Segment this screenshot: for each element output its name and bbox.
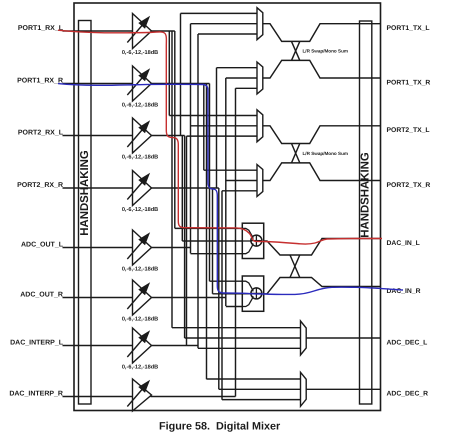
wire PORT2_RX_R bus tap to ADC_DEC mux AM2 input 2 (219, 388, 301, 390)
wire attenuator A1 output to bus (151, 30, 175, 32)
bus wire PORT2_RX_L to summer S1 (vertical) (181, 136, 183, 242)
wire summer S1 output rail to DAC swap and DAC_IN_L row (264, 239, 381, 256)
wire DAC_INTERP_R from label through HANDSHAKING to attenuator (63, 396, 133, 398)
mux AM1 (ADC_DEC_L source select) (301, 321, 307, 355)
bus wire ADC_OUT_L bus to mux M1, mux M3 and summer S1 (vertical) (190, 24, 192, 254)
svg-text:PORT2_TX_L: PORT2_TX_L (387, 127, 430, 134)
mux M4 (PORT2_TX_R source select) (257, 165, 263, 197)
wire PORT1_RX_L bus tap to PORT mux M3 input 3 (187, 135, 258, 137)
wire ADC_OUT_L bus tap to PORT mux M3 input 2 (191, 125, 258, 127)
wire PORT2_RX_L bus tap to ADC_DEC mux AM1 input 2 (185, 337, 301, 339)
L/R swap crossover X (PORT2_TX) (292, 144, 300, 163)
wire PORT1_RX_R from label through HANDSHAKING to attenuator (63, 83, 133, 85)
mux M2 (PORT1_TX_R source select) (257, 62, 263, 94)
svg-text:HANDSHAKING: HANDSHAKING (360, 152, 372, 238)
wire mux AM1 output to ADC_DEC_L row (306, 337, 380, 339)
highlighted blue example path PORT1_RX_R to DAC_IN_R (58, 84, 403, 295)
wire DAC_INTERP_R bus tap to PORT mux M2 input 3 (236, 87, 258, 89)
bus wire PORT1_RX_R to ADC_DEC mux AM2 (vertical) (206, 84, 208, 380)
wire attenuator A8 output to bus (151, 396, 236, 398)
svg-text:0,-6,-12,-18dB: 0,-6,-12,-18dB (122, 316, 158, 323)
attenuator A4 (variable, triangle with arrow) (127, 171, 151, 206)
wire PORT2_RX_R bus tap to PORT mux M2 input 1 (217, 67, 258, 69)
wire DAC_INTERP_L bus tap to ADC_DEC mux AM1 input 3 (198, 347, 301, 349)
wire ADC_OUT_R from label through HANDSHAKING to attenuator (63, 297, 133, 299)
wire ADC_OUT_R bus tap to PORT mux M4 input 2 (226, 180, 257, 182)
svg-text:PORT2_RX_L: PORT2_RX_L (18, 130, 64, 137)
svg-text:PORT1_RX_L: PORT1_RX_L (18, 25, 64, 32)
attenuator A2 (variable, triangle with arrow) (127, 66, 151, 101)
wire PORT1_RX_R bus tap to summer S2 DAC_IN_R input 1 (210, 280, 243, 282)
bus wire PORT2_RX_R down to ADC_DEC mux AM2 (vertical) (218, 188, 220, 389)
L/R swap crossover X (DAC_IN) (290, 255, 300, 278)
mux AM2 (ADC_DEC_R source select) (301, 372, 307, 406)
svg-text:PORT2_RX_R: PORT2_RX_R (17, 182, 63, 189)
bus wire PORT2_RX_L up to mux M1 (vertical) (180, 13, 182, 135)
wire mux AM2 output to ADC_DEC_R row (306, 388, 380, 390)
wire mux output rail to swap and PORT2_TX R output row (263, 163, 381, 181)
svg-text:PORT1_TX_R: PORT1_TX_R (387, 79, 431, 86)
svg-text:PORT2_TX_R: PORT2_TX_R (387, 182, 431, 189)
svg-text:0,-6,-12,-18dB: 0,-6,-12,-18dB (122, 364, 158, 371)
wire PORT2_RX_R from label through HANDSHAKING to attenuator (63, 187, 133, 189)
svg-text:ADC_OUT_R: ADC_OUT_R (20, 292, 63, 299)
bus wire DAC_INTERP_L up to mux M3 (vertical) (186, 136, 188, 345)
wire DAC_INTERP_L bus tap to PORT mux M3 input 1 (169, 115, 257, 117)
wire DAC_INTERP_L from label through HANDSHAKING to attenuator (63, 345, 133, 347)
svg-text:DAC_INTERP_R: DAC_INTERP_R (9, 391, 63, 398)
attenuator A8 (variable, triangle with arrow) (127, 379, 151, 411)
outer mixer block boundary (74, 3, 381, 411)
svg-text:ADC_OUT_L: ADC_OUT_L (21, 242, 64, 249)
wire PORT1_RX_R bus tap to ADC_DEC mux AM2 input 1 (207, 378, 301, 380)
wire PORT1_RX_R bus tap to PORT mux M4 input 3 (222, 190, 257, 192)
svg-text:HANDSHAKING: HANDSHAKING (79, 150, 91, 236)
wire PORT1_RX_L bus tap to summer S1 DAC_IN_L input 1 (175, 227, 243, 229)
left HANDSHAKING block (79, 21, 92, 405)
wire attenuator A3 output to bus (151, 135, 185, 137)
svg-text:0,-6,-12,-18dB: 0,-6,-12,-18dB (122, 49, 158, 56)
bus wire PORT2_RX_R to summer S2 (vertical) (212, 188, 214, 294)
wire ADC_OUT_L bus tap to PORT mux M1 input 2 (191, 23, 258, 25)
bus wire DAC_INTERP_L up to mux M1 / stub to AM1 (vertical) (197, 34, 199, 348)
bus wire PORT1_RX_L up-tap to mux M3 (vertical) (168, 31, 170, 116)
right HANDSHAKING block (360, 21, 372, 404)
svg-text:L/R Swap/Mono Sum: L/R Swap/Mono Sum (303, 49, 349, 54)
wire ADC_OUT_L bus tap to summer S1 DAC_IN_L input 3 (191, 253, 243, 255)
wire PORT1_RX_L from label through HANDSHAKING to attenuator (63, 30, 133, 32)
summing mixer S1 DAC_IN_L box (242, 223, 263, 258)
wire mux output rail to swap and PORT2_TX L output row (263, 126, 381, 144)
mux M1 (PORT1_TX_L source select) (257, 8, 263, 40)
attenuator A7 (variable, triangle with arrow) (127, 328, 151, 363)
wire PORT2_RX_L bus tap to PORT mux M1 input 1 (181, 12, 258, 14)
wire attenuator A2 output to bus (151, 83, 210, 85)
L/R swap crossover X (PORT1_TX) (292, 41, 300, 60)
svg-text:0,-6,-12,-18dB: 0,-6,-12,-18dB (122, 206, 158, 213)
wire mux output rail to swap and PORT1_TX L output row (263, 24, 381, 42)
bus wire PORT2_RX_R up to mux M2 (vertical) (216, 68, 218, 188)
bus wire ADC_OUT_R bus to mux M2, mux M4 and summer S2 (vertical) (225, 78, 227, 306)
svg-text:0,-6,-12,-18dB: 0,-6,-12,-18dB (122, 154, 158, 161)
wire attenuator A4 output to bus (151, 187, 219, 189)
svg-text:DAC_IN_L: DAC_IN_L (387, 240, 420, 247)
attenuator A1 (variable, triangle with arrow) (127, 14, 151, 49)
wire attenuator A5 output to bus (151, 247, 191, 249)
svg-text:ADC_DEC_R: ADC_DEC_R (387, 391, 429, 398)
bus wire PORT1_RX_R up-tap to mux M4 (vertical) (203, 84, 205, 171)
svg-text:0,-6,-12,-18dB: 0,-6,-12,-18dB (122, 266, 158, 273)
bus wire PORT1_RX_R to summer S2 (vertical) (209, 84, 211, 282)
svg-text:ADC_DEC_L: ADC_DEC_L (387, 339, 428, 346)
wire ADC_OUT_R bus tap to summer S2 DAC_IN_R input 3 (226, 306, 243, 308)
svg-text:L/R Swap/Mono Sum: L/R Swap/Mono Sum (303, 151, 349, 156)
bus wire PORT1_RX_L to summer S1 (vertical) (174, 31, 176, 228)
svg-text:Figure 58. Digital Mixer: Figure 58. Digital Mixer (159, 421, 281, 433)
wire attenuator A7 output to bus (151, 345, 199, 347)
summing mixer S2 DAC_IN_R box (242, 276, 263, 311)
mux M3 (PORT2_TX_L source select) (257, 110, 263, 142)
svg-text:0,-6,-12,-18dB: 0,-6,-12,-18dB (122, 102, 158, 109)
svg-text:DAC_INTERP_L: DAC_INTERP_L (10, 340, 64, 347)
svg-text:PORT1_TX_L: PORT1_TX_L (387, 25, 430, 32)
wire DAC_INTERP_R bus tap to ADC_DEC mux AM2 input 3 (222, 399, 301, 401)
wire summer S2 output rail to DAC swap and DAC_IN_R row (264, 278, 381, 294)
wire attenuator A6 output to bus (151, 297, 226, 299)
attenuator A6 (variable, triangle with arrow) (127, 280, 151, 315)
wire DAC_INTERP_L bus tap to PORT mux M1 input 3 (198, 33, 257, 35)
attenuator A5 (variable, triangle with arrow) (127, 230, 151, 265)
wire PORT1_RX_L bus tap to ADC_DEC mux AM1 input 1 (172, 327, 301, 329)
bus wire DAC_INTERP_R up to mux M2 (vertical) (235, 88, 237, 396)
highlighted red example path PORT1_RX_L to DAC_IN_L (58, 30, 382, 244)
wire PORT2_RX_L bus tap to summer S1 DAC_IN_L input 2 (182, 240, 242, 242)
bus wire PORT2_RX_L down to ADC_DEC mux AM1 (vertical) (184, 136, 186, 339)
wire ADC_OUT_L from label through HANDSHAKING to attenuator (63, 247, 133, 249)
svg-text:PORT1_RX_R: PORT1_RX_R (17, 78, 63, 85)
wire PORT2_RX_L from label through HANDSHAKING to attenuator (63, 135, 133, 137)
bus wire PORT1_RX_L to ADC_DEC mux AM1 (vertical) (171, 31, 173, 328)
wire DAC_INTERP_R bus tap to PORT mux M4 input 1 (204, 169, 257, 171)
attenuator A3 (variable, triangle with arrow) (127, 118, 151, 153)
wire mux output rail to swap and PORT1_TX R output row (263, 60, 381, 78)
wire ADC_OUT_R bus tap to PORT mux M2 input 2 (226, 77, 257, 79)
wire PORT2_RX_R bus tap to summer S2 DAC_IN_R input 2 (213, 293, 243, 295)
bus wire DAC_INTERP_R up to mux M4 / stub to AM2 (vertical) (221, 191, 223, 400)
